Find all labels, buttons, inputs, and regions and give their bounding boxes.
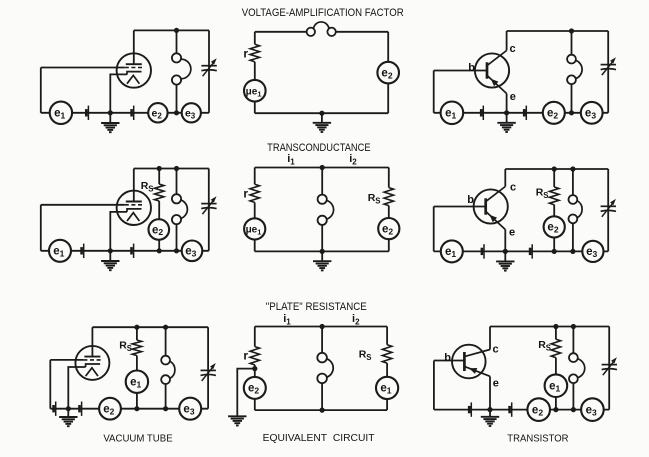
wire 1B right rail upper [387,32,389,62]
svg-text:e3: e3 [586,404,597,417]
source e1 (1A) [50,102,72,124]
ground (1A) [101,113,119,132]
svg-text:e: e [510,91,516,103]
junction node (2C) Rs top [552,166,557,171]
wire 1C top rail [507,30,609,32]
svg-text:e1: e1 [54,108,65,121]
svg-text:e1: e1 [53,246,64,259]
wire 2A left rail [40,205,42,251]
svg-text:RS: RS [359,349,372,362]
vacuum tube V1 (2A) [117,191,151,225]
junction node (2C) headphone top [570,166,575,171]
wire 3C emitter lead [489,376,491,409]
junction ground node (1C) [504,110,509,115]
wire 2C emitter lead [504,230,506,252]
headphones P1 (1B) [307,22,336,36]
ground (3A) [59,409,77,427]
wire 2C top rail [505,168,608,170]
battery B1 (3A) [54,402,56,416]
source e2 (3C) [527,398,550,421]
junction node (3B) center bottom [320,408,325,413]
svg-text:VOLTAGE-AMPLIFICATION FACTOR: VOLTAGE-AMPLIFICATION FACTOR [242,7,404,19]
wire 2B right rail lower [388,206,390,218]
source e2 (3A) [99,398,121,420]
wire 3B top rail [255,326,387,328]
ground (2A) [101,251,119,270]
ground (3C) [481,410,499,426]
svg-text:i2: i2 [349,153,357,167]
wire 3C right rail [608,327,610,410]
wire 1B bottom rail [255,112,388,114]
wire 3A top rail [92,326,208,328]
source e1 (3C) [545,374,568,397]
wire 1A cathode lead [110,74,127,112]
svg-text:RS: RS [536,187,549,200]
junction ground node (2A) [108,248,113,253]
junction node (1C) headphone top [569,28,574,33]
svg-text:e1: e1 [130,377,141,390]
source e2 (2C) [544,216,565,237]
wire 1B left rail lower [254,62,256,80]
svg-text:e2: e2 [103,404,114,417]
junction node (2C) headphone bottom [570,249,575,254]
wire 3C left rail [433,361,435,410]
svg-text:i1: i1 [287,153,295,167]
svg-text:b: b [444,352,451,364]
svg-text:r: r [243,47,248,61]
wire 2B right rail upper [388,168,390,188]
wire 3C bottom rail [434,409,609,411]
wire 1A top (plate to right rail) [134,29,209,31]
source e3 (1A) [182,103,201,122]
transistor Q1 (2C) [474,187,508,230]
junction ground node (3C) [487,407,492,412]
resistor Rs (2C) [550,187,559,205]
source e1 (3A) [126,371,148,393]
junction node (3C) headphone top [571,324,576,329]
source e2 (3B) [244,377,266,399]
svg-text:r: r [243,349,248,363]
source e1 (1C) [441,102,464,125]
wire 3A bottom rail [50,408,208,410]
wire 1A left rail [40,68,42,113]
wire 2A grid lead [41,204,125,206]
wire 3B bottom rail [255,409,387,411]
wire 3B right rail lower [386,363,388,377]
junction node (2B) center top [320,165,325,170]
svg-text:RS: RS [119,340,132,353]
svg-text:c: c [493,344,499,356]
wire 3B left rail upper [254,327,256,347]
wire 2C base lead [434,206,486,208]
wire 2A right rail [208,169,210,251]
svg-text:e1: e1 [445,246,456,259]
svg-text:e: e [493,378,499,390]
svg-text:e2: e2 [532,404,543,417]
wire 2B top rail [255,167,389,169]
svg-text:e2: e2 [152,224,163,237]
junction node (1A) e2-e3 [174,110,179,115]
headphones P1 (1A) [172,53,191,84]
ground (2B) [313,251,331,270]
resistor Rs (3A) [132,340,141,355]
wire 3B right rail foot [386,399,388,410]
wire 3A Rs branch upper [136,327,138,340]
source e3 (3A) [179,398,201,420]
wire 2B left rail upper [254,168,256,185]
svg-text:"PLATE" RESISTANCE: "PLATE" RESISTANCE [266,301,367,313]
svg-text:i2: i2 [352,313,360,327]
wire 2C left rail [433,207,435,252]
source e3 (3C) [581,398,604,421]
headphones P1 (2C) [569,195,583,223]
headphones P1 (2A) [172,194,188,224]
wire 1C emitter lead [506,94,508,113]
ground (1C) [497,113,515,132]
battery B2 (1A) [132,106,134,120]
wire 1A grid lead [41,67,125,69]
svg-text:c: c [510,43,516,55]
wire 1B left rail upper [254,32,256,45]
wire 2A headphone branch [176,169,178,251]
transistor Q1 (1C) [475,51,509,94]
junction ground node (1A) [108,110,113,115]
wire 3A plate lead [91,327,93,356]
ground (2C) [496,251,514,270]
junction node (1C) headphone bottom [569,110,574,115]
battery B2 (1C) [524,106,526,120]
svg-text:e3: e3 [183,404,194,417]
wire 3C collector lead [489,327,491,350]
wire 2C headphone branch [572,169,574,251]
wire 2B left rail lower [254,202,256,218]
junction node (3A) headphone bottom [163,406,168,411]
junction node (2A) Rs bottom [157,248,162,253]
transistor Q1 (3C) [452,345,490,379]
wire 1A plate lead [133,30,135,64]
variable capacitor C1 (2C) [601,199,616,217]
wire 3A right rail [207,327,209,409]
headphones P1 (3C) [569,353,585,383]
wire 1B top-right [336,31,388,33]
wire 2A Rs branch mid [158,201,160,219]
svg-text:e: e [509,227,515,239]
wire 2C Rs branch upper [553,169,555,187]
battery B1 (2C) [482,244,484,258]
source μe1 (2B) [244,218,265,239]
resistor r (1B) [250,44,259,62]
source e2 (2A) [149,219,170,240]
svg-text:e2: e2 [381,67,392,80]
wire 2A plate lead [133,169,135,202]
svg-text:TRANSISTOR: TRANSISTOR [507,433,569,445]
svg-text:RS: RS [141,180,154,193]
variable capacitor C1 (1C) [601,57,616,75]
junction node (3C) Rs bottom [553,407,558,412]
headphones P1 (2B) [318,195,334,225]
wire 3C top rail [490,326,609,328]
wire 2C Rs branch lower [553,238,555,252]
svg-text:e2: e2 [382,223,393,236]
wire 2A cathode lead [110,212,127,251]
wire 3A grid lead [50,359,83,361]
wire 3A cathode lead [68,367,85,409]
wire 2C bottom rail [434,250,609,252]
wire 3A Rs branch mid [136,356,138,371]
wire 1B top-left [255,31,307,33]
junction node (3A) Rs bottom [134,406,139,411]
wire 1C headphone branch [571,31,573,113]
junction ground node (1B) [319,111,324,116]
wire 3B left rail mid [254,365,256,377]
variable capacitor C1 (3A) [201,363,216,381]
resistor r (2B) [250,184,259,202]
source e3 (2A) [182,241,203,262]
svg-text:EQUIVALENT CIRCUIT: EQUIVALENT CIRCUIT [263,432,376,444]
wire 2B right rail foot [388,239,390,251]
source μe1 (1B) [244,80,266,102]
svg-text:e2: e2 [547,222,558,235]
source e3 (2C) [582,241,603,262]
svg-text:b: b [468,62,475,74]
wire 1B right rail lower [387,83,389,113]
svg-text:TRANSCONDUCTANCE: TRANSCONDUCTANCE [267,142,371,154]
headphones P1 (3A) [161,356,175,384]
battery B1 (1A) [86,106,88,120]
svg-text:VACUUM TUBE: VACUUM TUBE [103,433,172,445]
svg-text:r: r [243,187,248,201]
resistor Rs (2B) [384,188,393,206]
svg-text:e3: e3 [585,108,596,121]
wire 2B bottom rail [255,250,389,252]
junction node (2A) Rs top [157,166,162,171]
junction node (3A) Rs top [134,325,139,330]
wire 2A top rail [134,168,209,170]
wire 2B center branch [321,168,323,252]
wire 1C left rail [433,71,435,113]
wire 3C Rs branch upper [555,327,557,340]
wire 3A Rs branch lower [136,393,138,409]
source e2 (1B) [377,62,399,84]
variable capacitor C1 (3C) [602,357,617,375]
source e1 (3B) [376,377,398,399]
wire 1A right rail [208,30,210,112]
headphones P1 (3B) [317,353,333,383]
source e2 (1A) [148,103,167,122]
junction node (3B) center top [320,324,325,329]
resistor Rs (2A) [155,184,164,201]
svg-text:e2: e2 [248,383,259,396]
wire 3C base lead [434,360,465,362]
svg-text:e1: e1 [445,108,456,121]
wire 2C Rs branch mid [553,205,555,217]
headphones P1 (1C) [567,55,582,85]
wire 1C right rail [607,31,609,113]
wire 3B right rail upper [386,327,388,345]
svg-text:i1: i1 [283,313,291,327]
wire 3A left rail [49,360,51,409]
source e1 (2C) [441,240,463,262]
ground (1B) [313,113,331,132]
junction node (3A) headphone top [163,325,168,330]
junction node (3C) Rs top [553,324,558,329]
wire 1C bottom rail [434,112,609,114]
svg-text:c: c [510,182,516,194]
junction node (2C) Rs bottom [552,249,557,254]
wire 1C collector lead [506,31,508,51]
wire 3B center branch [321,327,323,411]
wire 2B left rail foot [254,240,256,252]
battery B2 (2C) [530,244,532,258]
wire 2C collector lead [504,169,506,187]
source e2 (1C) [543,102,565,124]
wire 2A bottom rail [41,250,209,252]
battery B1 (2A) [82,244,84,258]
vacuum tube V1 (3A) [75,346,109,380]
wire 3C Rs branch lower [555,397,557,410]
svg-text:RS: RS [368,192,381,205]
wire 1C base lead [434,70,487,72]
source e2 (2B) [378,218,399,239]
svg-text:e2: e2 [547,108,558,121]
battery B1 (1C) [481,106,483,120]
svg-text:e3: e3 [586,246,597,259]
source e3 (1C) [581,102,603,124]
junction ground node (3A) [66,406,71,411]
source e1 (2A) [49,240,71,262]
junction node (3B) ground tap [252,366,257,371]
junction node (1A) headphone top [174,28,179,33]
variable capacitor C1 (1A) [201,58,216,76]
svg-text:RS: RS [538,339,551,352]
junction ground node (2C) [503,249,508,254]
svg-text:e1: e1 [380,383,391,396]
battery B1 (3C) [469,402,471,416]
wire 3B ground branch [237,369,255,416]
variable capacitor C1 (2A) [201,196,216,214]
junction node (3C) headphone bottom [571,407,576,412]
battery B2 (3C) [510,402,512,416]
vacuum tube V1 (1A) [117,53,151,87]
wire 1B left rail foot [254,102,256,114]
wire 3B left rail foot [254,399,256,410]
svg-text:e3: e3 [185,246,196,259]
wire 2C right rail [607,169,609,251]
wire 1A bottom rail [41,112,209,114]
svg-text:e1: e1 [549,381,560,394]
wire 3C Rs branch mid [555,358,557,375]
resistor Rs (3C) [551,339,560,357]
battery B2 (3A) [80,402,82,416]
junction node (2A) headphone top [174,166,179,171]
junction node (2B) center bottom [320,249,325,254]
junction node (2A) headphone bottom [174,248,179,253]
resistor r (3B) [250,347,259,365]
wire 3A headphone branch [165,327,167,409]
svg-text:b: b [467,194,474,206]
battery B2 (2A) [132,244,134,258]
wire 2A Rs branch lower [158,240,160,251]
wire 1A headphone branch [176,30,178,112]
resistor Rs (3B) [382,345,391,363]
wire 2A Rs branch upper [158,169,160,185]
wire 3C headphone branch [572,327,574,410]
ground (3B) [228,416,246,426]
